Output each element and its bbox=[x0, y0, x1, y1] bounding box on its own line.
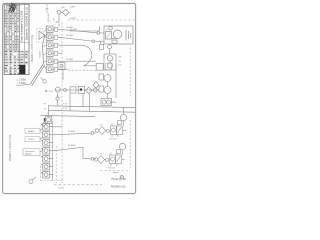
svg-text:Zeichn-Nr. 75D-0245 Bl.1 v2: Zeichn-Nr. 75D-0245 Bl.1 v2 bbox=[25, 7, 29, 40]
svg-text:TD: TD bbox=[53, 18, 55, 21]
svg-text:223/1a: 223/1a bbox=[28, 139, 35, 141]
svg-text:25B 10T: 25B 10T bbox=[108, 168, 116, 170]
svg-text:△ 3-50M: △ 3-50M bbox=[16, 82, 25, 85]
svg-text:SL7A05: SL7A05 bbox=[66, 58, 74, 61]
svg-text:PGA05: PGA05 bbox=[38, 50, 41, 58]
svg-text:2-50M: 2-50M bbox=[58, 188, 64, 190]
svg-text:(Y) N.M3: (Y) N.M3 bbox=[48, 12, 50, 22]
svg-text:M5100: M5100 bbox=[25, 153, 32, 155]
svg-text:SL7A02: SL7A02 bbox=[66, 34, 74, 37]
svg-text:SL7A00: SL7A00 bbox=[70, 28, 78, 31]
svg-text:PGB05 7 + 4P B-2 Y 2,5: PGB05 7 + 4P B-2 Y 2,5 bbox=[9, 134, 12, 161]
svg-text:Hydr-Schaltplan 4,5t CX56: Hydr-Schaltplan 4,5t CX56 bbox=[20, 10, 24, 41]
svg-text:SL7B05: SL7B05 bbox=[68, 131, 76, 133]
svg-text:SL7B06: SL7B06 bbox=[68, 145, 76, 147]
svg-text:25B 10T: 25B 10T bbox=[109, 139, 117, 141]
svg-text:AKB3a: AKB3a bbox=[28, 130, 35, 133]
svg-text:PGA05 7 + 4P B-1 Y 2,5q: PGA05 7 + 4P B-1 Y 2,5q bbox=[31, 34, 34, 62]
svg-text:N.M10: N.M10 bbox=[70, 18, 77, 20]
svg-text:R0356«-01: R0356«-01 bbox=[111, 184, 126, 188]
svg-text:Connector: Connector bbox=[25, 150, 35, 153]
